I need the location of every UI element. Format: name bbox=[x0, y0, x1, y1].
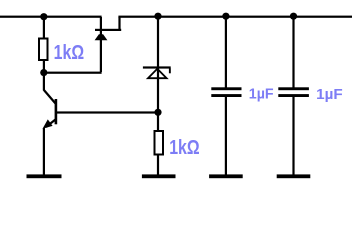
capacitor C1 top plate bbox=[211, 87, 241, 90]
wire C2 bottom lead bbox=[292, 97, 294, 175]
svg-text:1kΩ: 1kΩ bbox=[169, 136, 200, 159]
pass device Q2 bar bbox=[95, 29, 121, 31]
transistor Q1 emitter arrow bbox=[43, 119, 53, 128]
svg-text:1µF: 1µF bbox=[316, 87, 343, 103]
wire R2 bottom lead bbox=[157, 155, 159, 175]
wire top rail left segment bbox=[0, 16, 102, 18]
transistor Q1 collector lead bbox=[43, 75, 45, 91]
capacitor C2 top plate bbox=[278, 87, 309, 90]
zener D1 anode triangle bbox=[148, 69, 167, 78]
wire node A horizontal bbox=[44, 72, 102, 74]
node dot at R1 top on rail bbox=[40, 13, 47, 20]
zener D1 cathode tick bbox=[169, 68, 171, 73]
ground bar under C1 bbox=[209, 174, 243, 178]
node dot on rail above C1 bbox=[222, 13, 229, 20]
svg-text:1µF: 1µF bbox=[249, 87, 274, 103]
wire R1 bottom lead bbox=[43, 61, 45, 73]
wire R1 top lead bbox=[43, 17, 45, 38]
pass device Q2 right vertical lead to rail bbox=[118, 17, 120, 30]
transistor Q1 base bar bbox=[55, 99, 58, 124]
capacitor C2 bottom plate bbox=[278, 94, 309, 97]
ground bar under C2 bbox=[277, 174, 311, 178]
node A dot below R1 bbox=[40, 69, 47, 76]
svg-text:1kΩ: 1kΩ bbox=[54, 41, 85, 64]
wire C2 top lead bbox=[292, 17, 294, 88]
wire node B to R2 top bbox=[157, 113, 159, 131]
wire top rail right segment bbox=[118, 16, 352, 18]
transistor Q1 emitter diagonal bbox=[46, 119, 56, 127]
transistor Q1 collector diagonal bbox=[44, 90, 56, 104]
node dot on rail above zener bbox=[154, 13, 161, 20]
transistor Q1 emitter lead bbox=[43, 128, 45, 175]
ground bar under Q1 bbox=[27, 174, 62, 178]
node dot on rail above C2 bbox=[290, 13, 297, 20]
ground bar under R2 bbox=[142, 174, 176, 178]
wire zener top lead bbox=[157, 17, 159, 113]
capacitor C1 bottom plate bbox=[211, 94, 241, 97]
zener D1 cathode bar bbox=[143, 66, 171, 68]
node B dot bbox=[154, 109, 161, 116]
pass device Q2 arrow bbox=[95, 34, 108, 40]
wire C1 top lead bbox=[225, 17, 227, 88]
wire C1 bottom lead bbox=[225, 97, 227, 175]
resistor R2 body bbox=[155, 131, 164, 155]
resistor R1 body bbox=[39, 39, 48, 61]
pass device Q2 left vertical lead bbox=[100, 17, 102, 72]
wire Q1 base to node B bbox=[57, 111, 159, 113]
